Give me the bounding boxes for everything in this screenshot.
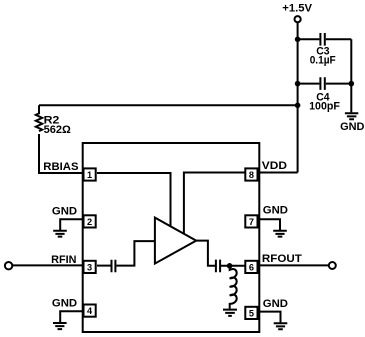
node +1.5V supply terminal circle [295,16,301,22]
svg-text:GND: GND [52,205,77,217]
wire amp output [196,241,215,266]
wire pin6 to RFOUT [259,264,329,266]
wire right cap rail down [350,39,352,112]
op-amp amplifier triangle [155,218,196,264]
node RFIN terminal circle [5,262,12,269]
inductor L1 [230,266,237,309]
wire +1.5V vertical rail [297,23,299,173]
svg-text:GND: GND [340,121,365,133]
pin 6 box [245,261,257,273]
ground pin5 [274,323,288,329]
wire RFIN to pin3 [12,264,83,266]
pin 1 box [84,168,96,180]
svg-text:RFIN: RFIN [51,254,76,266]
capacitor C2 output [216,260,220,273]
resistor R2 [36,105,42,131]
junction at R2 branch [295,103,301,109]
svg-text:RFOUT: RFOUT [262,253,302,265]
wire pin7 to ground [259,219,280,231]
capacitor C1 input [112,260,116,273]
wire C3 branch horizontal [298,38,320,40]
wire input cap to amp input [116,241,155,266]
junction at C4 [295,81,301,87]
svg-text:7: 7 [249,217,254,227]
svg-text:+1.5V: +1.5V [282,3,313,15]
svg-text:2: 2 [87,217,92,227]
junction output node [227,263,233,269]
pin 3 box [84,261,96,273]
svg-text:0.1µF: 0.1µF [310,54,336,66]
svg-text:4: 4 [87,306,93,316]
svg-text:GND: GND [52,298,77,310]
svg-text:3: 3 [87,263,92,273]
wire R2 to RBIAS pin 1 [39,134,84,173]
capacitor C3 [320,33,351,46]
junction at C4 right [349,81,355,87]
svg-text:GND: GND [263,298,288,310]
wire VDD branch to pin 8 [259,172,298,174]
capacitor C4 [298,77,352,90]
svg-text:562Ω: 562Ω [44,124,72,136]
IC body U1 [83,143,260,332]
pin 5 box [245,307,257,319]
svg-text:GND: GND [263,205,288,217]
wire pin2 to ground [60,219,83,231]
svg-text:8: 8 [249,170,254,180]
wire pin5 to ground [259,312,281,324]
wire output cap to pin 6 [221,265,245,267]
pin 2 box [84,215,96,227]
wire pin1 internal to amp [97,173,171,227]
junction at +1.5V / C3 [295,37,301,43]
svg-text:5: 5 [249,309,254,319]
pin 7 box [245,215,257,227]
pin 4 box [84,305,96,317]
node RFOUT terminal circle [329,262,336,269]
wire R2 top branch [39,104,298,106]
ground inductor [223,310,237,316]
ground pin2 [53,231,67,237]
svg-text:VDD: VDD [262,160,287,172]
svg-text:RBIAS: RBIAS [43,161,78,173]
ground pin7 [273,231,287,237]
ground pin4 [53,323,67,329]
svg-text:1: 1 [87,170,92,180]
svg-text:100pF: 100pF [309,101,340,113]
svg-text:6: 6 [249,263,254,273]
wire pin8 internal to amp [184,173,245,235]
ground top-right [345,113,358,119]
wire pin4 to ground [60,311,83,323]
pin 8 box [245,168,257,180]
wire pin3 to input cap [97,265,111,267]
